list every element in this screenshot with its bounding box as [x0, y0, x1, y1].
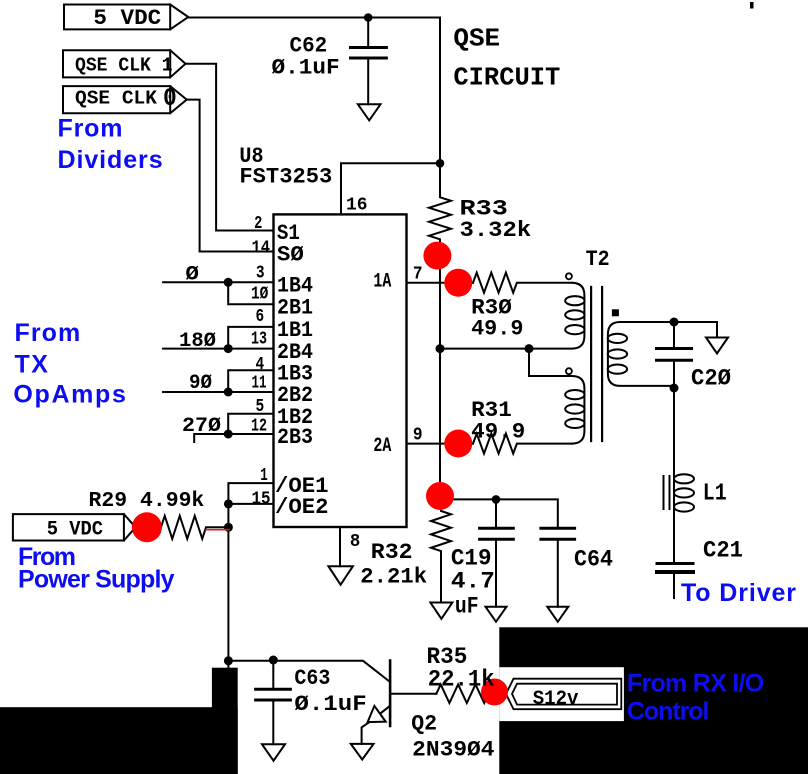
- svg-text:TX: TX: [15, 350, 49, 378]
- svg-text:15: 15: [252, 489, 271, 509]
- svg-text:5 VDC: 5 VDC: [93, 6, 161, 31]
- wire 5VDC rail to C62/R33: [188, 18, 440, 164]
- connector flag S12v: [506, 679, 621, 710]
- node C19 junction: [492, 495, 501, 504]
- svg-text:3: 3: [256, 263, 265, 283]
- node 180 junction: [224, 344, 233, 353]
- svg-text:S12v: S12v: [533, 688, 579, 711]
- svg-text:27Ø: 27Ø: [182, 415, 221, 438]
- svg-text:5: 5: [256, 397, 265, 417]
- svg-text:From RX I/O: From RX I/O: [627, 670, 764, 698]
- connector flag 5 VDC (top): [64, 5, 188, 30]
- transistor Q2 base wire: [390, 693, 436, 695]
- resistor R35 22.1k: [436, 684, 497, 703]
- svg-text:C21: C21: [703, 538, 743, 564]
- ground C62: [358, 104, 381, 120]
- svg-text:9: 9: [413, 426, 423, 446]
- node red dot R29/5VDC: [132, 512, 162, 542]
- wire input 0 to pins 3,10: [163, 282, 273, 304]
- wire /OE1 /OE2 stubs: [228, 483, 273, 668]
- inductor L1 core marks: [664, 476, 670, 509]
- node C20 top junction: [670, 318, 679, 327]
- ground C63: [262, 744, 285, 760]
- transformer T2 primary winding 2: [572, 376, 584, 444]
- capacitor C63: [272, 660, 274, 744]
- svg-text:/OE2: /OE2: [275, 495, 329, 520]
- svg-text:2N39Ø4: 2N39Ø4: [412, 738, 494, 763]
- wire L1 to C21: [673, 514, 675, 562]
- svg-text:1Ø: 1Ø: [251, 284, 268, 304]
- svg-text:QSE: QSE: [453, 23, 500, 53]
- node center-tap junction: [525, 344, 534, 353]
- wire input 90 to pins 11,4: [163, 370, 273, 392]
- svg-text:12: 12: [251, 417, 267, 437]
- transistor Q2 2N3904 base bar: [389, 661, 392, 727]
- svg-text:From: From: [58, 115, 123, 143]
- resistor R31 49.9: [473, 434, 572, 454]
- svg-text:Dividers: Dividers: [58, 146, 163, 174]
- svg-text:2B3: 2B3: [277, 425, 313, 450]
- wire 2A to R31: [407, 443, 474, 445]
- capacitor C19: [495, 499, 497, 606]
- node 0 junction: [224, 278, 233, 287]
- svg-text:QSE CLK 1: QSE CLK 1: [75, 55, 173, 77]
- transformer T2 primary winding 1: [440, 283, 584, 349]
- svg-text:14: 14: [252, 239, 271, 259]
- svg-text:Power Supply: Power Supply: [18, 566, 175, 594]
- svg-text:FST3253: FST3253: [239, 165, 332, 190]
- svg-text:QSE CLK: QSE CLK: [75, 87, 158, 109]
- resistor R32 2.21k: [431, 499, 451, 602]
- node R33 bottom junction: [436, 344, 445, 353]
- node red dot 2A/R31: [444, 430, 472, 458]
- black redaction box bottom right: [499, 627, 808, 774]
- capacitor C64: [557, 540, 559, 607]
- wire QSE CLK 0 to pin 14: [187, 100, 274, 252]
- svg-text:Control: Control: [627, 698, 710, 726]
- svg-text:Ø.1uF: Ø.1uF: [294, 692, 366, 717]
- wire junction to C19/C64: [440, 499, 558, 527]
- ground R32: [430, 603, 452, 619]
- svg-text:1: 1: [260, 466, 268, 486]
- connector flag QSE CLK 1: [63, 50, 186, 77]
- transformer T2 core: [591, 287, 602, 441]
- op-amp U8 FST3253 IC body: [274, 214, 407, 527]
- svg-text:6: 6: [256, 307, 265, 327]
- svg-text:22.1k: 22.1k: [428, 666, 495, 692]
- black mark top right: [750, 2, 754, 9]
- black redaction bar bottom left: [212, 668, 238, 774]
- node red dot R33/1A: [423, 242, 451, 270]
- wire input 180 to pins 13,6: [163, 327, 273, 349]
- svg-text:R32: R32: [371, 540, 413, 565]
- svg-text:4: 4: [256, 355, 265, 375]
- svg-text:Q2: Q2: [411, 712, 437, 737]
- connector flag QSE CLK 0: [63, 86, 187, 113]
- ground C19: [486, 607, 507, 622]
- resistor R33 3.32k: [429, 163, 451, 499]
- inductor L1: [673, 471, 675, 514]
- polarity dot winding 1: [566, 273, 572, 279]
- polarity dot winding 2: [566, 368, 572, 374]
- svg-text:16: 16: [346, 196, 368, 216]
- wire center tap: [529, 349, 572, 376]
- wire secondary top to ground: [674, 322, 717, 338]
- svg-text:18Ø: 18Ø: [179, 330, 216, 353]
- svg-text:C63: C63: [294, 666, 330, 691]
- svg-text:5 VDC: 5 VDC: [47, 519, 103, 542]
- svg-text:C64: C64: [574, 546, 613, 572]
- node rail corner junction: [436, 159, 445, 168]
- polarity square secondary: [612, 309, 619, 316]
- svg-text:T2: T2: [586, 247, 610, 272]
- svg-text:7: 7: [413, 265, 423, 285]
- node red dot R35/S12v: [481, 679, 508, 706]
- svg-text:Ø: Ø: [185, 263, 199, 286]
- svg-text:49.9: 49.9: [471, 317, 523, 342]
- svg-text:To Driver: To Driver: [681, 579, 796, 607]
- node 5VDC/C62 junction: [364, 13, 373, 22]
- svg-text:9Ø: 9Ø: [189, 372, 212, 395]
- resistor R30 49.9: [473, 273, 572, 293]
- node /OE2 junction: [224, 499, 233, 508]
- ground Q2 emitter: [351, 744, 374, 760]
- svg-text:2B1: 2B1: [277, 295, 313, 320]
- svg-text:2A: 2A: [373, 435, 391, 458]
- ground secondary: [706, 338, 728, 354]
- transistor Q2 emitter: [362, 706, 391, 744]
- wire input 270 to pins 12,5: [194, 414, 273, 442]
- node bottom left junction: [224, 656, 233, 665]
- node C20 bottom junction: [670, 384, 679, 393]
- svg-text:8: 8: [350, 532, 360, 552]
- transistor Q2 emitter arrow: [368, 706, 386, 722]
- pin 8 stub: [339, 527, 341, 566]
- connector flag 5 VDC (power supply): [13, 514, 136, 540]
- svg-text:1A: 1A: [373, 271, 391, 294]
- capacitor C62: [367, 18, 369, 105]
- svg-text:0: 0: [163, 84, 177, 113]
- node C63 junction: [269, 656, 278, 665]
- svg-text:Ø.1uF: Ø.1uF: [272, 55, 340, 80]
- svg-text:From: From: [15, 319, 81, 347]
- node 2A/R32 junction: [436, 495, 445, 504]
- svg-text:2.21k: 2.21k: [360, 564, 427, 589]
- wire red artifact under R29: [206, 529, 229, 531]
- ground pin 8: [328, 566, 353, 585]
- ground C64: [547, 607, 568, 622]
- resistor R29 4.99k: [148, 516, 229, 539]
- svg-text:4.7: 4.7: [451, 569, 495, 595]
- wire 1A to R30: [407, 282, 474, 284]
- node 270 junction: [224, 430, 233, 439]
- svg-text:L1: L1: [703, 481, 727, 508]
- svg-text:R29 4.99k: R29 4.99k: [89, 490, 205, 513]
- capacitor C20: [673, 322, 675, 388]
- wire QSE CLK 1 to pin 2: [186, 64, 274, 231]
- wire OE node down to bottom rail: [228, 661, 390, 682]
- node red dot R32 junction: [426, 482, 454, 510]
- svg-text:13: 13: [251, 330, 267, 350]
- svg-text:uF: uF: [455, 593, 479, 619]
- svg-text:C2Ø: C2Ø: [691, 366, 731, 392]
- transformer T2 secondary winding: [608, 322, 674, 386]
- node red dot 1A/R30: [444, 269, 472, 297]
- wire C20 to L1: [673, 388, 675, 471]
- svg-text:2: 2: [254, 214, 262, 234]
- svg-text:11: 11: [252, 373, 267, 393]
- wire pin 16 to rail: [341, 163, 440, 214]
- svg-text:49.9: 49.9: [471, 420, 525, 445]
- capacitor C21: [657, 562, 693, 565]
- svg-text:SØ: SØ: [277, 243, 304, 268]
- svg-text:CIRCUIT: CIRCUIT: [453, 63, 560, 93]
- svg-text:3.32k: 3.32k: [460, 218, 532, 243]
- node R29 junction: [224, 523, 233, 532]
- node 90 junction: [224, 388, 233, 397]
